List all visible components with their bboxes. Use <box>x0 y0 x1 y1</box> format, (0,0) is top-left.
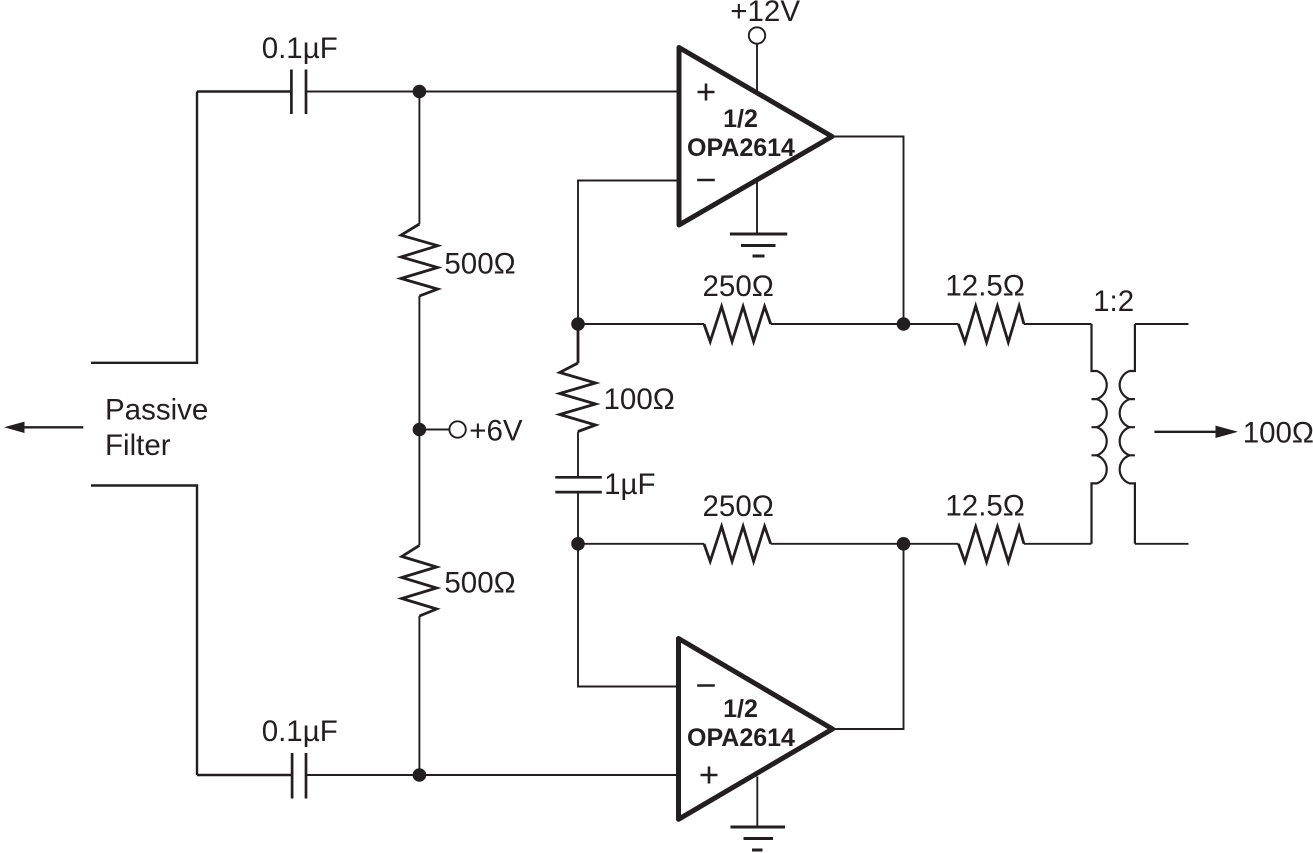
svg-text:Passive: Passive <box>105 394 208 427</box>
wire 1uF cap to bottom feedback junction <box>577 493 579 544</box>
capacitor C1 0.1uF top <box>291 70 306 115</box>
resistor R5 12.5 ohm top <box>958 306 1024 342</box>
svg-text:OPA2614: OPA2614 <box>687 724 795 752</box>
wire top row to transformer primary <box>1024 323 1092 325</box>
ground symbol top <box>730 234 787 256</box>
node +6V junction dot <box>413 423 427 437</box>
svg-text:OPA2614: OPA2614 <box>687 134 795 162</box>
capacitor C3 1uF <box>555 477 602 492</box>
ground symbol bottom <box>731 827 786 850</box>
terminal +6V open circle <box>449 421 465 437</box>
wire top feedback row to resistor <box>578 323 704 325</box>
wire bias divider middle segment <box>418 296 420 545</box>
op-amp U1A plus sign <box>698 84 715 101</box>
op-amp U1B triangle <box>679 639 833 820</box>
resistor R3 250 ohm top <box>704 307 771 342</box>
wire op-amp U1B to ground <box>756 777 758 827</box>
svg-text:500Ω: 500Ω <box>444 247 515 280</box>
svg-text:250Ω: 250Ω <box>703 490 774 523</box>
svg-text:+12V: +12V <box>730 0 800 28</box>
transformer T1 secondary winding <box>1120 324 1135 544</box>
svg-text:1:2: 1:2 <box>1093 285 1134 318</box>
wire op-amp U1B output <box>833 544 904 729</box>
wire +12V supply to op-amp <box>756 44 758 92</box>
wire secondary bottom terminal <box>1135 543 1189 545</box>
arrow to 100 ohm load <box>1154 431 1216 433</box>
arrow to passive filter <box>24 426 83 428</box>
svg-text:1/2: 1/2 <box>723 695 758 723</box>
op-amp U1A triangle <box>679 48 832 226</box>
svg-text:1µF: 1µF <box>604 468 655 501</box>
wire secondary top terminal <box>1135 323 1189 325</box>
resistor R6 12.5 ohm bottom <box>958 527 1024 562</box>
capacitor C2 0.1uF bottom <box>292 753 306 799</box>
node bottom output junction dot <box>897 537 911 551</box>
svg-text:12.5Ω: 12.5Ω <box>945 489 1024 522</box>
wire U1B inverting input <box>578 544 679 687</box>
resistor R4 250 ohm bottom <box>704 526 771 561</box>
op-amp U1A minus sign <box>697 179 715 182</box>
svg-text:0.1µF: 0.1µF <box>262 32 338 65</box>
node top output junction dot <box>897 317 911 331</box>
wire bottom row right of capacitor to op-amp + input <box>306 774 679 776</box>
resistor R1 500 ohm top <box>401 224 438 296</box>
svg-text:Filter: Filter <box>105 429 171 462</box>
wire bottom row resistor to output junction <box>771 543 959 545</box>
wire top row right of capacitor to op-amp + input <box>306 91 679 93</box>
wire top row resistor to output junction <box>771 323 959 325</box>
wire bottom row to transformer primary <box>1024 543 1092 545</box>
wire top row left of capacitor <box>197 90 290 92</box>
op-amp U1B plus sign <box>701 767 718 784</box>
terminal +12V open circle <box>749 27 765 43</box>
svg-text:100Ω: 100Ω <box>1243 417 1313 450</box>
wire +6V stub <box>419 429 449 431</box>
wire op-amp U1A to ground <box>756 180 758 233</box>
wire U1A inverting input <box>578 181 679 325</box>
node top junction dot <box>413 85 427 99</box>
wire bottom row left of capacitor <box>197 774 291 776</box>
wire bias divider upper segment <box>418 92 420 225</box>
wire 100 ohm to 1uF cap <box>577 432 579 477</box>
wire op-amp U1A output <box>832 137 904 325</box>
resistor R7 100 ohm mid <box>560 324 596 432</box>
wire upper-left input L from Passive Filter <box>91 92 197 363</box>
op-amp U1B minus sign <box>697 684 715 687</box>
wire bottom feedback row to resistor <box>578 543 704 545</box>
svg-text:100Ω: 100Ω <box>604 383 675 416</box>
transformer T1 primary winding <box>1092 324 1107 544</box>
svg-text:+6V: +6V <box>469 415 523 448</box>
node bottom junction dot <box>413 768 427 782</box>
svg-text:250Ω: 250Ω <box>703 270 774 303</box>
svg-text:500Ω: 500Ω <box>444 567 515 600</box>
svg-text:12.5Ω: 12.5Ω <box>945 270 1024 303</box>
wire bias divider lower segment <box>418 616 420 775</box>
resistor R2 500 ohm bottom <box>402 545 437 616</box>
svg-text:1/2: 1/2 <box>723 105 758 133</box>
node feedback top junction dot <box>571 317 585 331</box>
wire lower-left input L from Passive Filter <box>91 486 197 776</box>
node feedback bottom junction dot <box>571 537 585 551</box>
svg-text:0.1µF: 0.1µF <box>262 715 338 748</box>
